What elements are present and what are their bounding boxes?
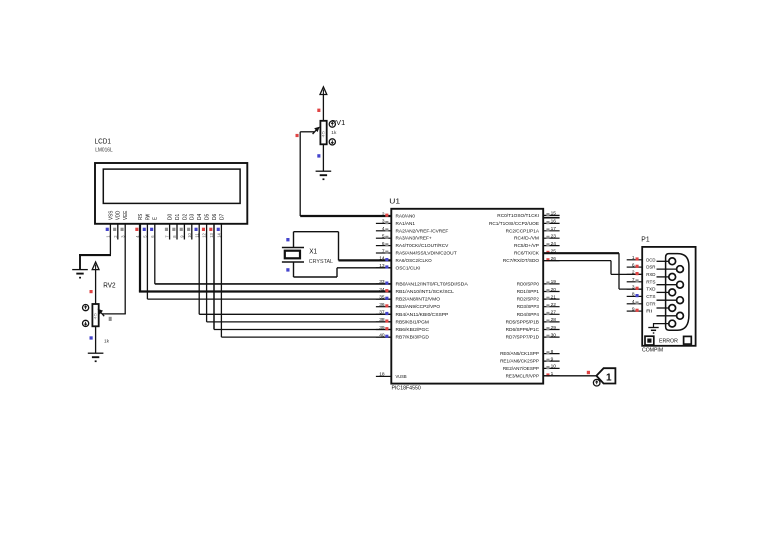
svg-text:10: 10 (551, 364, 557, 370)
U1 pin 23 square (546, 236, 549, 239)
wire X1 bottom down (293, 262, 295, 277)
U1 pin 28 square (546, 320, 549, 323)
LCD1 pin 9 square (180, 228, 183, 231)
P1 DB9 pin circle R2 (677, 281, 684, 288)
svg-text:DCD: DCD (646, 257, 656, 263)
RV1 wiper arrow (313, 129, 317, 134)
U1 pin 29 stub (543, 329, 559, 331)
P1 second indicator square (684, 336, 692, 344)
svg-text:D2: D2 (182, 214, 188, 220)
svg-text:RC7/RX/DT/SDO: RC7/RX/DT/SDO (503, 258, 539, 264)
U1 pin 6 stub (376, 245, 391, 247)
ground GND near LCD VSS (72, 269, 88, 271)
U1 pin 38 stub (376, 321, 391, 323)
svg-text:D6: D6 (212, 214, 218, 220)
P1 DB9 pin circle L2 (669, 274, 676, 281)
wire LCD D3 stub (191, 224, 193, 240)
LCD1 pin 11 square (195, 228, 198, 231)
svg-text:7: 7 (632, 277, 635, 283)
P1 pin 7 stub (627, 281, 643, 283)
svg-text:RB5/KBI1/PGM: RB5/KBI1/PGM (396, 319, 429, 325)
wire D7 down (220, 224, 222, 337)
svg-text:1: 1 (632, 255, 635, 261)
svg-text:21: 21 (551, 294, 557, 300)
svg-text:RI: RI (646, 309, 652, 315)
U1 pin 27 stub (543, 313, 559, 315)
ground below RV1 (316, 170, 332, 172)
wire E down (154, 224, 156, 284)
P1 pin 1 stub (627, 259, 643, 261)
svg-text:1k: 1k (104, 338, 110, 344)
wire to U1 pin 14 (thick) (339, 259, 392, 261)
svg-text:4: 4 (382, 226, 385, 232)
U1 pin 33 stub (376, 283, 391, 285)
svg-text:RXD: RXD (646, 272, 656, 278)
node square on RV1 bottom wire (317, 154, 320, 157)
wire RV1 wiper to U1 pin 2 (thick) (300, 215, 391, 217)
svg-text:RE0/AN5/CK1SPP: RE0/AN5/CK1SPP (500, 351, 539, 357)
svg-text:RD3/SPP3: RD3/SPP3 (517, 304, 539, 310)
svg-text:10: 10 (187, 232, 192, 237)
P1 DB9 pin circle L1 (669, 258, 676, 265)
wire LCD VDD stub (117, 224, 119, 240)
svg-text:9: 9 (632, 306, 635, 312)
svg-text:RA3/AN3/VREF+: RA3/AN3/VREF+ (396, 236, 432, 242)
P1 DB9 shell (666, 254, 689, 331)
U1 pin 22 square (546, 304, 549, 307)
wire VEE to RV2 wiper (103, 313, 126, 315)
U1 pin 2 square (385, 214, 388, 217)
svg-text:D7: D7 (219, 214, 225, 220)
U1 pin 15 stub (543, 214, 559, 216)
svg-text:2: 2 (382, 211, 385, 217)
LCD1 pin 8 square (172, 228, 175, 231)
P1 pin 3 stub (627, 288, 643, 290)
svg-text:CRYSTAL: CRYSTAL (309, 259, 333, 265)
node square X1 top (286, 238, 289, 241)
wire power to RV2 top (95, 270, 97, 304)
U1 pin 40 square (385, 335, 388, 338)
svg-text:19: 19 (551, 279, 557, 285)
U1 PIC18F4550 body (391, 209, 543, 384)
node square on RV2 wiper wire (109, 317, 112, 321)
U1 pin 35 stub (376, 298, 391, 300)
svg-text:34: 34 (379, 287, 385, 293)
svg-text:PIC18F4550: PIC18F4550 (392, 385, 421, 391)
P1 DB9 pin circle R1 (677, 266, 684, 273)
svg-text:20: 20 (551, 287, 557, 293)
LCD1 pin 10 square (187, 228, 190, 231)
svg-text:D1: D1 (175, 214, 181, 220)
svg-text:RA6/OSC2/CLKO: RA6/OSC2/CLKO (396, 258, 432, 264)
svg-text:RB3/AN9/CCP2/VPO: RB3/AN9/CCP2/VPO (396, 304, 441, 310)
svg-text:45: 45 (322, 131, 326, 138)
P1 internal pin lead TXD (657, 291, 669, 293)
logicstate probe body (596, 368, 615, 383)
U1 pin 25 square (546, 251, 549, 254)
svg-text:RB4/AN11/KBI0/CSSPP: RB4/AN11/KBI0/CSSPP (396, 312, 449, 318)
svg-text:RD1/SPP1: RD1/SPP1 (517, 289, 539, 295)
LCD display window (103, 169, 240, 203)
U1 pin 27 square (546, 312, 549, 315)
svg-text:RA5/AN4/SS/LVDIN/C2OUT: RA5/AN4/SS/LVDIN/C2OUT (396, 251, 457, 257)
P1 pin 8 stub (627, 295, 643, 297)
U1 pin 7 square (385, 251, 388, 254)
U1 pin 9 stub (543, 360, 559, 362)
svg-text:RA2/AN2/VREF-/CVREF: RA2/AN2/VREF-/CVREF (396, 228, 449, 234)
LCD1 pin 3 square (121, 228, 124, 231)
wire E to U1 pin 33 (155, 283, 391, 285)
svg-text:16: 16 (551, 219, 557, 225)
wire RS down (thick) (139, 224, 141, 292)
wire LCD VSS down (109, 224, 111, 254)
U1 pin 19 square (546, 282, 549, 285)
connector P1 body (642, 247, 695, 346)
P1 pin 1 square (636, 257, 639, 260)
svg-text:RD6/SPP6/P1C: RD6/SPP6/P1C (506, 327, 540, 333)
svg-text:RB0/AN12/INT0/FLT0/SDI/SDA: RB0/AN12/INT0/FLT0/SDI/SDA (396, 281, 469, 287)
svg-text:29: 29 (551, 325, 557, 331)
svg-text:RV2: RV2 (103, 280, 115, 289)
svg-text:RS: RS (138, 213, 144, 220)
U1 pin 21 stub (543, 298, 559, 300)
power symbol above RV2 (92, 262, 99, 270)
U1 pin 23 stub (543, 237, 559, 239)
U1 pin 39 stub (376, 329, 391, 331)
U1 pin 15 square (546, 213, 549, 216)
wire X1 bottom up to pin 13 row (336, 268, 338, 277)
wire D7 to U1 pin 40 (221, 336, 391, 338)
U1 pin 2 stub (376, 215, 391, 217)
P1 ERROR indicator square (645, 336, 654, 345)
svg-text:17: 17 (551, 226, 557, 232)
P1 pin 4 square (636, 301, 639, 304)
svg-text:38: 38 (379, 317, 385, 323)
svg-text:6: 6 (382, 241, 385, 247)
ground below RV2 (88, 352, 104, 354)
wire TX to P1 TXD (619, 288, 642, 290)
svg-text:U1: U1 (389, 196, 400, 205)
potentiometer RV2 body (92, 304, 98, 326)
LCD1 pin 12 square (202, 228, 205, 231)
U1 pin 35 square (385, 297, 388, 300)
U1 pin 13 stub (376, 267, 391, 269)
U1 pin 14 square (385, 258, 388, 261)
svg-text:RA1/AN1: RA1/AN1 (396, 221, 416, 227)
P1 pin 2 stub (627, 273, 643, 275)
svg-text:28: 28 (551, 317, 557, 323)
LCD1 pin 6 square (150, 228, 153, 231)
svg-text:RE2/AN7/OESPP: RE2/AN7/OESPP (503, 366, 539, 372)
svg-text:ERROR: ERROR (659, 338, 678, 344)
svg-text:D4: D4 (197, 214, 203, 220)
svg-text:40: 40 (379, 332, 385, 338)
LCD1 pin 2 square (113, 228, 116, 231)
P1 DB9 pin circle R4 (677, 312, 684, 319)
P1 internal pin lead DSR (657, 268, 677, 270)
U1 pin 16 stub (543, 222, 559, 224)
svg-text:13: 13 (379, 263, 385, 269)
U1 pin 30 stub (543, 336, 559, 338)
svg-text:VDD: VDD (116, 210, 122, 220)
wire VSS to ground (thick) (79, 254, 111, 256)
P1 pin 9 square (636, 309, 639, 312)
svg-text:45: 45 (94, 313, 98, 320)
wire ground drop (79, 255, 81, 269)
svg-text:35: 35 (379, 294, 385, 300)
U1 pin 33 square (385, 282, 388, 285)
RV1 decrement button (329, 139, 335, 145)
node square on RV2 top wire (90, 290, 93, 293)
U1 pin 18 stub (376, 375, 391, 377)
U1 pin 40 stub (376, 336, 391, 338)
wire D6 to U1 pin 39 (214, 329, 391, 331)
wire LCD D1 stub (176, 224, 178, 240)
P1 internal ground wire (654, 324, 669, 328)
svg-text:D0: D0 (168, 214, 174, 220)
wire RV2 bottom to ground (95, 326, 97, 353)
svg-text:VSS: VSS (108, 210, 114, 220)
svg-text:33: 33 (379, 279, 385, 285)
svg-text:VUSB: VUSB (396, 374, 407, 380)
svg-text:9: 9 (551, 356, 554, 362)
P1 DB9 pin circle R3 (677, 297, 684, 304)
svg-text:1: 1 (606, 373, 612, 384)
wire power to RV1 top (322, 95, 324, 121)
wire D4 down (198, 224, 200, 314)
P1 internal pin lead RXD (657, 276, 669, 278)
wire U1 pin1 MCLR to logic state (543, 375, 596, 377)
U1 pin 21 square (546, 297, 549, 300)
P1 pin 7 square (636, 279, 639, 282)
svg-text:RB6/KBI2/PGC: RB6/KBI2/PGC (396, 327, 430, 333)
svg-text:VEE: VEE (123, 210, 129, 220)
U1 pin 36 square (385, 304, 388, 307)
svg-text:P1: P1 (641, 235, 649, 244)
node square on RV1 top wire (317, 109, 320, 112)
potentiometer RV1 body (320, 121, 326, 145)
svg-text:36: 36 (379, 302, 385, 308)
P1 internal pin lead DTR (657, 307, 669, 309)
U1 pin 30 square (546, 335, 549, 338)
wire TX down (618, 253, 620, 289)
svg-text:D5: D5 (205, 214, 211, 220)
U1 pin 28 stub (543, 321, 559, 323)
LCD1 pin 1 square (106, 228, 109, 231)
U1 pin 9 square (546, 359, 549, 362)
svg-text:12: 12 (202, 232, 207, 237)
svg-text:X1: X1 (309, 247, 317, 256)
U1 pin 16 square (546, 221, 549, 224)
U1 pin 5 square (385, 236, 388, 239)
wire D5 down (206, 224, 208, 322)
wire X1 top down to pin 14 row (338, 232, 340, 261)
P1 DB9 pin circle L4 (669, 305, 676, 312)
RV2 wiper arrow (100, 312, 104, 317)
svg-text:8: 8 (551, 349, 554, 355)
svg-text:RE3/MCLR/VPP: RE3/MCLR/VPP (506, 373, 539, 379)
logicstate toggle button (593, 379, 600, 386)
LCD1 pin 7 square (165, 228, 168, 231)
U1 pin 4 square (385, 228, 388, 231)
U1 pin 24 square (546, 243, 549, 246)
svg-text:RD2/SPP2: RD2/SPP2 (517, 297, 539, 303)
P1 pin 3 square (636, 287, 639, 290)
svg-text:RC4/D-/VM: RC4/D-/VM (514, 236, 539, 242)
wire LCD VEE down (124, 224, 126, 314)
wire RV1 wiper left (300, 131, 314, 133)
crystal X1 bottom plate (282, 261, 304, 263)
svg-text:RC1/T1OSI/CCP2/UOE: RC1/T1OSI/CCP2/UOE (489, 221, 540, 227)
node square on RV2 bottom wire (90, 336, 93, 339)
U1 pin 1 square (546, 373, 549, 376)
U1 pin 25 stub (543, 252, 559, 254)
wire RW down (146, 224, 148, 299)
U1 pin 10 stub (543, 367, 559, 369)
U1 pin 8 square (546, 351, 549, 354)
U1 pin 37 square (385, 312, 388, 315)
U1 pin 20 stub (543, 291, 559, 293)
P1 DB9 pin circle L5 (669, 320, 676, 327)
svg-text:RC5/D+/VP: RC5/D+/VP (514, 243, 539, 249)
svg-text:39: 39 (379, 325, 385, 331)
power symbol above RV1 (320, 87, 327, 95)
svg-text:RTS: RTS (646, 279, 656, 285)
RV2 increment button (83, 305, 89, 311)
svg-text:27: 27 (551, 310, 557, 316)
svg-text:14: 14 (379, 256, 385, 262)
U1 pin 29 square (546, 327, 549, 330)
LCD1 pin 4 square (135, 228, 138, 231)
svg-text:RC6/TX/CK: RC6/TX/CK (514, 251, 540, 257)
svg-text:DSR: DSR (646, 265, 656, 271)
svg-text:37: 37 (379, 310, 385, 316)
U1 pin 8 stub (543, 353, 559, 355)
svg-text:7: 7 (382, 248, 385, 254)
svg-text:3: 3 (632, 284, 635, 290)
svg-text:6: 6 (632, 262, 635, 268)
svg-text:30: 30 (551, 332, 557, 338)
svg-text:RD0/SPP0: RD0/SPP0 (517, 281, 539, 287)
wire D6 down (213, 224, 215, 330)
U1 pin 34 stub (376, 291, 391, 293)
wire RX down (610, 261, 612, 275)
P1 pin 9 stub (627, 310, 643, 312)
P1 internal pin lead CTS (657, 299, 677, 301)
svg-text:RB2/AN8/INT2/VMO: RB2/AN8/INT2/VMO (396, 297, 441, 303)
LCD1 pin 5 square (143, 228, 146, 231)
P1 internal pin lead RTS (657, 284, 677, 286)
node square on RV1 wiper wire (296, 134, 299, 137)
U1 pin 26 stub (543, 260, 559, 262)
U1 pin 39 square (385, 327, 388, 330)
wire RS to U1 pin 34 (thick) (139, 290, 391, 292)
P1 internal pin lead RI (657, 315, 677, 317)
U1 pin 13 square (385, 265, 388, 268)
svg-text:15: 15 (551, 211, 557, 217)
U1 pin 20 square (546, 289, 549, 292)
wire X1 bottom across (294, 276, 338, 278)
RV2 decrement button (83, 320, 89, 326)
svg-text:COMPIM: COMPIM (642, 347, 664, 353)
P1 DB9 pin circle L3 (669, 289, 676, 296)
wire X1 top up (293, 232, 295, 248)
U1 pin 3 stub (376, 222, 391, 224)
U1 pin 6 square (385, 243, 388, 246)
U1 pin 22 stub (543, 306, 559, 308)
wire RW to U1 pin 35 (147, 298, 391, 300)
LCD1 pin 14 square (217, 228, 220, 231)
svg-text:CTS: CTS (646, 294, 656, 300)
wire LCD D0 stub (169, 224, 171, 240)
svg-text:TXD: TXD (646, 287, 656, 293)
svg-text:RC2/CCP1/P1A: RC2/CCP1/P1A (506, 228, 540, 234)
crystal X1 top plate (282, 247, 304, 249)
U1 pin 3 square (385, 221, 388, 224)
U1 pin 19 stub (543, 283, 559, 285)
LCD1 pin 13 square (209, 228, 212, 231)
U1 pin 26 square (546, 258, 549, 261)
svg-text:LCD1: LCD1 (95, 137, 111, 146)
svg-text:1k: 1k (331, 130, 337, 136)
svg-text:22: 22 (551, 302, 557, 308)
svg-text:RE1/AN6/CK2SPP: RE1/AN6/CK2SPP (500, 359, 539, 365)
wire RV1 bottom to ground (322, 144, 324, 171)
wire X1 top across (294, 231, 339, 233)
P1 pin 6 stub (627, 266, 643, 268)
wire LCD D2 stub (183, 224, 185, 240)
svg-text:OSC1/CLKI: OSC1/CLKI (396, 265, 421, 271)
U1 pin 1 stub (543, 375, 559, 377)
svg-text:RB7/KBI3/PGD: RB7/KBI3/PGD (396, 335, 430, 341)
P1 pin 6 square (636, 265, 639, 268)
svg-text:RD4/SPP4: RD4/SPP4 (517, 312, 539, 318)
svg-text:D3: D3 (190, 214, 196, 220)
U1 pin 24 stub (543, 245, 559, 247)
node square on MCLR wire (587, 371, 590, 374)
U1 pin 17 square (546, 228, 549, 231)
P1 pin 8 square (636, 294, 639, 297)
U1 pin 4 stub (376, 230, 391, 232)
svg-text:RD5/SPP5/P1B: RD5/SPP5/P1B (506, 319, 539, 325)
svg-text:DTR: DTR (646, 301, 656, 307)
svg-text:18: 18 (379, 372, 385, 378)
wire RV1 wiper down (299, 132, 301, 216)
U1 pin 7 stub (376, 252, 391, 254)
U1 pin 17 stub (543, 230, 559, 232)
P1 pin 4 stub (627, 303, 643, 305)
svg-text:23: 23 (551, 234, 557, 240)
svg-text:RW: RW (145, 214, 151, 220)
svg-text:2: 2 (632, 270, 635, 276)
svg-text:RA0/AN0: RA0/AN0 (396, 214, 416, 220)
RV1 increment button (329, 121, 335, 127)
node square X1 bottom (286, 268, 289, 271)
wire U1 pin25 TX right (thick) (543, 252, 619, 254)
U1 pin 34 square (385, 289, 388, 292)
stray wire segment at U1 pin 16 (thick) (543, 217, 559, 219)
U1 pin 37 stub (376, 313, 391, 315)
svg-text:E: E (153, 216, 159, 220)
svg-text:RB1/AN10/INT1/SCK/SCL: RB1/AN10/INT1/SCK/SCL (396, 289, 455, 295)
svg-text:5: 5 (382, 234, 385, 240)
U1 pin 5 stub (376, 237, 391, 239)
wire D5 to U1 pin 38 (207, 321, 392, 323)
U1 pin 38 square (385, 320, 388, 323)
wire to U1 pin 13 (337, 267, 391, 269)
svg-text:RD7/SPP7/P1D: RD7/SPP7/P1D (506, 335, 540, 341)
P1 internal pin lead DCD (657, 260, 669, 262)
